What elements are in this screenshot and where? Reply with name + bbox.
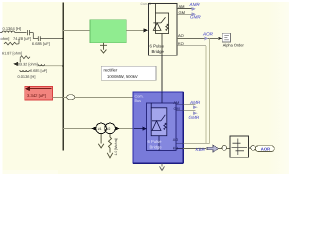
svg-text:AO: AO — [173, 138, 179, 142]
svg-text:#1: #1 — [98, 127, 102, 131]
svg-text:Bus: Bus — [135, 99, 142, 103]
svg-text:83.32 [ohm]: 83.32 [ohm] — [18, 63, 38, 67]
svg-text:KO: KO — [173, 147, 179, 151]
svg-text:Alpha Order: Alpha Order — [223, 43, 245, 48]
svg-text:0.0136 [H]: 0.0136 [H] — [18, 74, 36, 79]
svg-text:61.87 [ohm]: 61.87 [ohm] — [2, 52, 22, 56]
svg-text:74.28 [uF]: 74.28 [uF] — [13, 36, 31, 41]
svg-text:AMR: AMR — [189, 2, 201, 7]
svg-text:3.342 [uF]: 3.342 [uF] — [27, 93, 46, 98]
svg-text:AM: AM — [179, 4, 185, 9]
svg-text:#2: #2 — [107, 127, 111, 131]
svg-text:GM: GM — [179, 10, 185, 15]
svg-text:1.0 [Mohm]: 1.0 [Mohm] — [114, 138, 118, 155]
svg-text:Bridge: Bridge — [152, 49, 165, 54]
svg-text:0.1364 [H]: 0.1364 [H] — [3, 26, 21, 31]
svg-text:GMR: GMR — [189, 115, 200, 120]
svg-text:ohm]: ohm] — [1, 36, 10, 41]
svg-text:KBR: KBR — [196, 147, 206, 152]
svg-text:1000MW, 500kV: 1000MW, 500kV — [107, 74, 138, 79]
svg-text:6 Pulse: 6 Pulse — [150, 44, 165, 49]
svg-text:Com. B: Com. B — [141, 2, 152, 6]
svg-text:6.685 [uF]: 6.685 [uF] — [30, 69, 47, 73]
svg-text:AO: AO — [178, 33, 184, 38]
svg-text:Bridge: Bridge — [150, 145, 163, 150]
svg-text:GM: GM — [174, 107, 180, 111]
svg-text:6 Pulse: 6 Pulse — [148, 139, 163, 144]
svg-text:AM: AM — [174, 101, 180, 105]
svg-text:6.685 [uF]: 6.685 [uF] — [32, 41, 50, 46]
svg-text:AMR: AMR — [189, 100, 201, 105]
svg-text:KO: KO — [178, 41, 184, 46]
svg-text:Com.: Com. — [135, 94, 144, 98]
svg-text:AOR: AOR — [202, 31, 214, 36]
svg-text:rectifier: rectifier — [104, 68, 118, 73]
